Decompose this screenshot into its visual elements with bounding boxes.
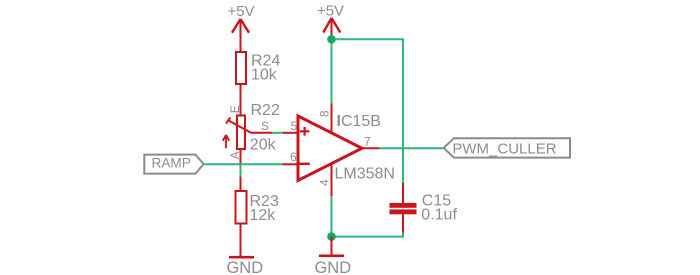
svg-text:4: 4: [318, 179, 332, 186]
op-amp IC15B triangle: [298, 116, 362, 181]
svg-text:R22: R22: [251, 102, 280, 119]
svg-text:LM358N: LM358N: [335, 166, 395, 183]
svg-text:5: 5: [291, 119, 298, 133]
op-amp pin 5 stub: [283, 132, 298, 134]
potentiometer R22 wiper end tick: [226, 117, 230, 123]
svg-text:+5V: +5V: [227, 3, 254, 20]
op-amp pin 7 stub: [361, 147, 380, 149]
wire: op-amp output to PWM_CULLER flag (green): [379, 147, 444, 149]
svg-text:8: 8: [318, 110, 332, 117]
wire: RAMP node down to R23 (green segment): [240, 164, 242, 176]
net label flag PWM_CULLER: [444, 138, 570, 157]
capacitor C15 top pin stub: [402, 183, 404, 203]
resistor R23 body: [236, 191, 247, 224]
supply +5V (left) arrow symbol: [232, 19, 249, 52]
svg-text:GND: GND: [226, 259, 263, 275]
svg-text:IC15B: IC15B: [337, 113, 381, 130]
svg-text:7: 7: [364, 134, 371, 148]
net label flag RAMP: [144, 155, 203, 174]
capacitor C15 top plate: [390, 203, 417, 208]
op-amp minus sign (inverting input): [299, 163, 310, 165]
op-amp pin 4 stub: [331, 164, 333, 197]
wire: pin 4 to bottom junction (green): [331, 196, 333, 236]
svg-text:0.1uf: 0.1uf: [421, 206, 457, 223]
supply +5V (right) arrow symbol: [323, 18, 340, 37]
svg-text:S: S: [261, 119, 269, 133]
wire: bottom junction to C15 bottom (green): [332, 232, 404, 236]
potentiometer R22 wiper diagonal and S lead: [228, 120, 272, 133]
svg-text:GND: GND: [314, 259, 351, 275]
op-amp pin 6 stub: [282, 163, 298, 165]
svg-text:RAMP: RAMP: [152, 155, 191, 170]
ground symbol (left) bar: [229, 256, 254, 259]
op-amp pin 8 stub: [331, 104, 333, 134]
wire: RAMP flag to op-amp pin 6: [204, 163, 283, 165]
svg-text:E: E: [228, 105, 242, 113]
junction dot (top, +5V net): [327, 35, 336, 44]
wire: +5V right dot to pin8 (vertical): [331, 39, 333, 104]
svg-text:6: 6: [290, 150, 297, 164]
wire: R22 bottom pin to RAMP node: [240, 149, 242, 164]
wire: bottom junction to GND symbol: [331, 237, 333, 255]
op-amp plus sign (non-inverting input): [300, 127, 310, 136]
junction dot (bottom, GND net): [327, 232, 336, 241]
wire: R23 top pin stub: [240, 176, 242, 191]
capacitor C15 bottom plate: [390, 209, 417, 214]
wire: wiper S net (green segment): [272, 132, 283, 134]
svg-text:+5V: +5V: [317, 3, 344, 20]
wire: R23 bottom to GND: [240, 224, 242, 257]
resistor R24 body: [236, 52, 246, 84]
ground symbol (right) bar: [319, 255, 344, 258]
svg-text:20k: 20k: [250, 136, 277, 153]
wire: +5V right dot to C15 top (horizontal then vertical): [332, 39, 404, 183]
potentiometer R22 body: [237, 116, 245, 150]
potentiometer R22 adjust arrow: [223, 135, 229, 149]
svg-text:12k: 12k: [250, 207, 277, 224]
svg-text:PWM_CULLER: PWM_CULLER: [452, 140, 556, 157]
capacitor C15 bottom pin stub: [402, 214, 404, 232]
svg-text:10k: 10k: [251, 67, 278, 84]
wire: R24 bottom to R22 top: [240, 84, 242, 116]
